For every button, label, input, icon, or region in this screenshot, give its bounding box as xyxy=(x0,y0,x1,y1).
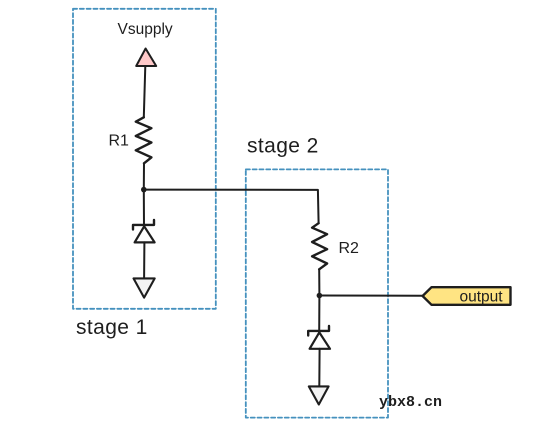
ground 2 (down triangle) xyxy=(309,386,329,404)
ground 1 (down triangle) xyxy=(134,278,155,297)
svg-text:stage 2: stage 2 xyxy=(247,135,319,158)
wire: node A to stage 2 (horizontal then down to R2) xyxy=(144,190,319,224)
wire: node A down to zener D1 xyxy=(143,190,145,227)
wire: resistor R1 to node A xyxy=(143,163,145,189)
svg-text:R1: R1 xyxy=(109,133,130,150)
zener diode D1 triangle xyxy=(135,226,155,242)
node B (junction dot, stage 2) xyxy=(317,293,323,299)
wire: node B to output tag xyxy=(319,295,422,297)
zener diode D1 cathode bar xyxy=(133,220,154,230)
svg-text:stage 1: stage 1 xyxy=(76,316,148,339)
output tag (yellow flag) xyxy=(423,287,511,305)
zener diode D2 triangle xyxy=(310,332,330,348)
wire: zener D1 to ground 1 xyxy=(143,242,145,278)
wire: node B down to zener D2 xyxy=(318,296,320,333)
svg-text:R2: R2 xyxy=(339,240,360,257)
svg-text:output: output xyxy=(460,289,504,306)
wire: resistor R2 to node B xyxy=(318,269,320,295)
svg-text:ybx8.cn: ybx8.cn xyxy=(379,394,442,411)
resistor R1 xyxy=(136,117,152,163)
stage 1 enclosure box xyxy=(73,9,216,309)
node A (junction dot, stage 1) xyxy=(141,187,147,193)
wire: zener D2 to ground 2 xyxy=(318,349,320,387)
svg-text:Vsupply: Vsupply xyxy=(118,21,173,38)
resistor R2 xyxy=(312,223,327,269)
wire: supply arrow to resistor R1 xyxy=(144,66,146,117)
zener diode D2 cathode bar xyxy=(308,326,329,336)
stage 2 enclosure box xyxy=(246,169,388,417)
supply arrow (pink triangle, Vsupply terminal) xyxy=(136,49,156,67)
